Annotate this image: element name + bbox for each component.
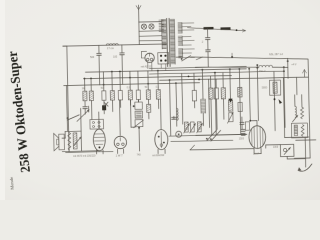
resistor R15 pot [184, 122, 188, 132]
svg-text:1000: 1000 [273, 147, 279, 149]
capacitor C6 [102, 105, 106, 110]
wire right v2 [283, 78, 284, 138]
wire right v1 [274, 71, 275, 130]
wire jack bottom [286, 156, 288, 158]
wire tube4 top [256, 121, 258, 126]
svg-text:5000: 5000 [262, 86, 268, 89]
resistor R8 [136, 90, 140, 100]
wire rail 5 [64, 83, 200, 86]
wire t2 drop [304, 138, 306, 158]
transformer T2 output [291, 123, 307, 138]
inductor L4 [176, 108, 178, 120]
inductor heater winding [159, 20, 164, 31]
wire rail 3 [84, 76, 232, 79]
wire tube2 pins [117, 149, 119, 153]
wire lamp drop [138, 22, 140, 44]
resistor R6 [110, 91, 114, 101]
svg-text:+4 V: +4 V [291, 63, 297, 66]
wire right border [308, 59, 310, 158]
transformer T1 primary winding [162, 19, 167, 48]
wire tube3 top [159, 99, 162, 129]
wire pot drop [80, 108, 83, 151]
svg-text:1500: 1500 [239, 138, 245, 140]
node HT junction [236, 29, 238, 31]
node X cross [104, 102, 108, 106]
wire drop g [137, 71, 139, 90]
resistor R5 [102, 91, 106, 101]
svg-text:17 cm: 17 cm [107, 46, 114, 50]
wire switch feed [176, 56, 181, 58]
wire HT line [187, 27, 245, 32]
wire heater tap 1 [139, 35, 161, 37]
capacitor C2 [121, 45, 123, 53]
resistor R1 filled [203, 27, 213, 30]
inductor L5 IF coil [201, 99, 206, 113]
tube V4 AL4 [249, 126, 266, 149]
capacitor C4b [206, 50, 211, 52]
wire tube2 top [118, 100, 121, 135]
inductor L2 [118, 90, 122, 100]
wire tube1 top [98, 112, 100, 129]
wire af bus [190, 149, 254, 150]
wire rail 1 [85, 69, 246, 72]
inductor speaker field coil [68, 133, 71, 151]
resistor R4 [89, 91, 93, 101]
resistor R21 [229, 113, 233, 122]
wire drop b [90, 78, 92, 91]
capacitor C8 [240, 122, 244, 124]
inductor L6 [295, 106, 297, 117]
node choke junction [283, 66, 285, 68]
wire jack link [266, 144, 280, 146]
resistor R26 [238, 87, 242, 97]
resistor R3 [83, 91, 87, 101]
wire r column a [210, 76, 212, 88]
lamp La1 [141, 24, 146, 29]
capacitor C3 [207, 29, 209, 38]
wire left drop [65, 85, 68, 117]
if transformer box [135, 102, 143, 109]
switch S2 wave change [67, 115, 79, 120]
wire antenna input lead [138, 5, 140, 22]
capacitor C1 [98, 45, 100, 53]
wire drop h [147, 71, 149, 90]
transformer T1 tap winding a [178, 23, 182, 33]
inductor L1 antenna coil [106, 43, 118, 45]
resistor R7 [128, 90, 132, 100]
wire drop d [111, 72, 113, 91]
wire grid lead arrow [77, 110, 90, 122]
tube V3 [155, 129, 168, 149]
wire drop e [119, 71, 121, 90]
wire mains line [191, 55, 308, 62]
wire secondary taps [182, 23, 195, 58]
wire v col [129, 100, 132, 127]
resistor R17 pot [197, 122, 201, 132]
wire right arrowhead [279, 99, 283, 104]
tube V2 [114, 136, 127, 149]
jack J1 [280, 144, 294, 156]
wire v4 feed [249, 69, 250, 121]
wire drop a [84, 79, 86, 92]
wire supply arrow [303, 70, 305, 77]
wire lamp top [139, 21, 161, 23]
svg-text:1 W 7: 1 W 7 [116, 153, 124, 157]
switch S1 mains [182, 56, 191, 61]
wire mid v4 [201, 70, 204, 99]
wire rail drop 258 [257, 65, 258, 120]
wire speaker top [65, 130, 81, 132]
wire mid v5 [209, 79, 210, 127]
resistor R9 [146, 90, 150, 100]
speaker LS [59, 134, 65, 150]
wire lamp bottom [139, 30, 161, 32]
resistor R2 filled [220, 27, 230, 30]
svg-text:NSL 287 1-2: NSL 287 1-2 [269, 53, 284, 56]
transformer T1 core [167, 18, 168, 66]
wire choke line [195, 66, 259, 69]
wire tube1 pins [96, 150, 98, 154]
wire drop f [129, 71, 131, 90]
wire rail2 drop [284, 67, 285, 127]
node rail dots [169, 79, 171, 81]
inductor HF choke [259, 65, 273, 67]
capacitor C9 [241, 129, 245, 131]
wire choke to right [272, 66, 287, 69]
wire drop to choke [287, 58, 289, 78]
wire speaker bottom [62, 150, 99, 153]
capacitor C5 [83, 107, 88, 109]
ground symbol [298, 164, 312, 171]
wire r column c [229, 69, 232, 100]
transformer T1 secondary winding [170, 19, 175, 63]
resistor R16 pot [190, 122, 194, 132]
inductor L3 [137, 100, 139, 102]
wire rail 4 [160, 77, 309, 80]
resistor R14 hum pot [73, 133, 77, 149]
wire rectifier loop [141, 51, 146, 58]
wire tube3 pins [157, 149, 159, 153]
wire rail 2 [149, 71, 283, 74]
wire mid v1 [170, 80, 171, 136]
wire r column b [215, 79, 217, 88]
switch S3 [207, 130, 217, 141]
wire antenna line [63, 44, 167, 46]
wire right bottom bus [285, 136, 309, 139]
resistor R29 [192, 90, 196, 101]
resistor R20 [228, 100, 232, 111]
tube socket box U1 [90, 119, 104, 129]
resistor R23 zigzag [300, 107, 303, 119]
wire right v3 [296, 77, 298, 94]
transformer T1 tap winding b [178, 36, 182, 45]
transformer T1 tap winding c [178, 49, 182, 58]
svg-text:mit 4673 mit 100/220: mit 4673 mit 100/220 [73, 154, 96, 157]
wire mid v3 [182, 73, 183, 124]
svg-text:100: 100 [113, 56, 118, 59]
wire mid v2 [175, 83, 178, 126]
resistor R19 [214, 88, 218, 99]
svg-text:mit AZ 12: mit AZ 12 [141, 65, 152, 68]
resistor R27 [238, 102, 242, 111]
capacitor C7 [173, 116, 175, 119]
wire drop i [157, 71, 159, 90]
svg-text:mit EAGW: mit EAGW [152, 153, 165, 157]
wire left border [67, 46, 69, 152]
lamp small [176, 131, 182, 137]
wire pot wiper [74, 137, 82, 146]
lamp La2 [149, 24, 154, 29]
wire drop c [102, 72, 104, 91]
resistor R13 [147, 104, 151, 112]
wire mid bus2 [171, 140, 233, 141]
rectifier tube AZ12 [145, 53, 155, 63]
wire heater tap 2 [139, 39, 161, 41]
resistor R18 [209, 88, 213, 99]
resistor R10 [156, 90, 160, 100]
switch S4 contact [196, 57, 203, 60]
wire rail 0 [149, 67, 246, 69]
tube V1 AL4 [93, 129, 105, 151]
wire bottom bus left [66, 150, 113, 153]
resistor R28 [221, 88, 225, 99]
wire wiper right [292, 115, 298, 122]
node mains junction [287, 60, 289, 62]
tube socket pins [158, 52, 169, 64]
wire tube4 pins [253, 148, 255, 153]
wire mid bus [169, 135, 247, 137]
svg-text:500: 500 [90, 56, 95, 59]
wire mid v6 [215, 73, 216, 135]
svg-text:1 A F: 1 A F [253, 151, 259, 155]
tube V4 hatch [252, 126, 263, 147]
resistor R22 boxed [269, 80, 280, 95]
wire r bus [239, 69, 240, 134]
